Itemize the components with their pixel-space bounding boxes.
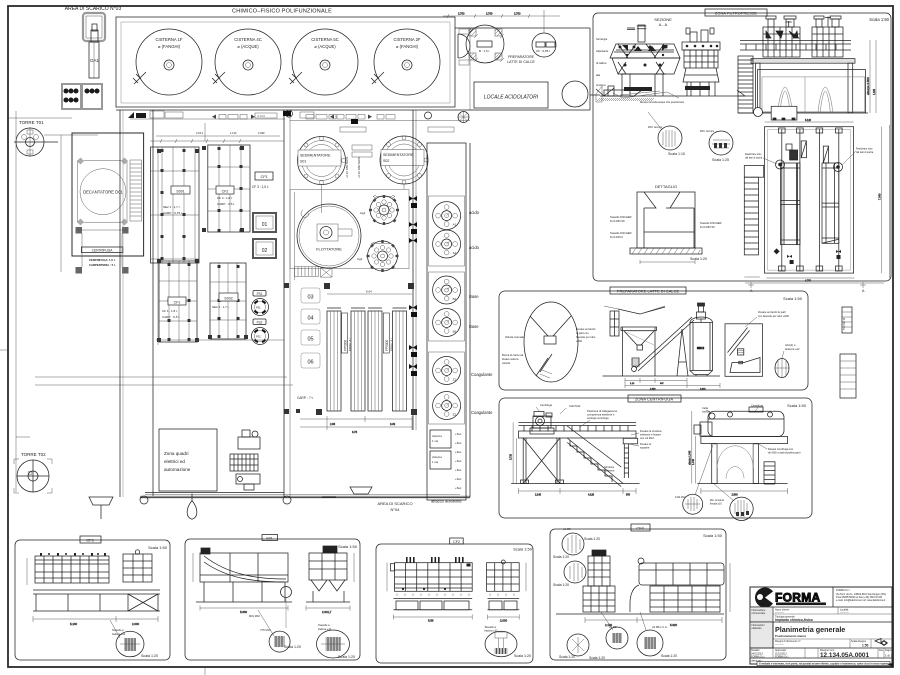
svg-text:fissare sulla la: fissare sulla la [502, 357, 519, 361]
svg-text:Il verbale è riservato, non po: Il verbale è riservato, non potrà, nè pa… [759, 662, 889, 666]
svg-text:Serrangia: Serrangia [596, 37, 608, 41]
svg-text:2.000: 2.000 [500, 619, 507, 623]
svg-text:Centrifuga: Centrifuga [540, 403, 553, 407]
svg-text:VITI M10: VITI M10 [260, 628, 271, 632]
svg-text:Z1: Z1 [453, 378, 457, 382]
svg-text:CARP. : 7 t.: CARP. : 7 t. [297, 396, 314, 400]
svg-text:B2: B2 [453, 330, 457, 334]
svg-text:CF1: CF1 [174, 301, 181, 305]
svg-text:Scala 1:50: Scala 1:50 [338, 544, 358, 549]
svg-text:Scala 1:50: Scala 1:50 [703, 533, 723, 538]
svg-text:FH 12/50 SK: FH 12/50 SK [700, 225, 715, 229]
svg-text:6.04: 6.04 [366, 290, 372, 294]
svg-text:dal lato di uscita: dal lato di uscita [856, 151, 874, 154]
svg-text:tubo(2) a: tubo(2) a [785, 343, 796, 347]
svg-text:CENTRIFUGA: CENTRIFUGA [92, 249, 114, 253]
svg-text:A1: A1 [453, 223, 457, 227]
svg-text:PAV. tecnico: PAV. tecnico [648, 125, 663, 129]
svg-text:fissata ⌀16: fissata ⌀16 [710, 503, 722, 506]
svg-text:Cella: Cella [702, 406, 708, 410]
svg-text:SEDIMENTATORE: SEDIMENTATORE [383, 153, 414, 157]
svg-text:Coagulante: Coagulante [471, 410, 493, 415]
svg-text:Scala 1:10: Scala 1:10 [668, 152, 685, 156]
svg-text:TECNIK W: TECNIK W [843, 317, 846, 330]
svg-text:5.100: 5.100 [70, 622, 77, 626]
svg-text:Centrifuga: Centrifuga [751, 404, 764, 408]
svg-text:DETTAGLIO: DETTAGLIO [655, 184, 677, 189]
svg-text:⊂⊃⊡: ⊂⊃⊡ [257, 114, 265, 118]
svg-text:lanterna ⌀12: lanterna ⌀12 [785, 347, 800, 351]
svg-text:acido: acido [469, 210, 480, 215]
svg-text:Pagina: Pagina [885, 649, 893, 652]
svg-text:le parti con: le parti con [576, 331, 589, 335]
svg-text:CENTRIFUGA: 1,5 t.: CENTRIFUGA: 1,5 t. [89, 258, 116, 262]
svg-text:elaborato: elaborato [752, 627, 763, 630]
svg-text:Struttura: Struttura [604, 465, 615, 469]
svg-text:FS1: FS1 [257, 292, 263, 296]
svg-text:LATTE DI CALCE: LATTE DI CALCE [507, 60, 535, 64]
svg-text:1 mq: 1 mq [432, 460, 439, 464]
svg-text:struttura: struttura [596, 83, 606, 87]
svg-text:LOCALE ACIDOLATORI: LOCALE ACIDOLATORI [484, 95, 539, 101]
svg-text:Scala 1:50: Scala 1:50 [869, 17, 889, 22]
svg-text:commerciale: commerciale [752, 612, 766, 615]
svg-text:2.680: 2.680 [650, 389, 656, 391]
svg-text:di calibre: di calibre [596, 61, 607, 65]
svg-text:P01: P01 [256, 306, 261, 310]
svg-text:2.640: 2.640 [700, 389, 706, 391]
svg-text:cisterna: cisterna [432, 455, 442, 459]
svg-text:2.140: 2.140 [535, 494, 542, 497]
svg-text:1.443: 1.443 [692, 458, 695, 465]
svg-text:CF : 0,65 t: CF : 0,65 t [536, 49, 550, 53]
svg-text:FORMA S.r.l.: FORMA S.r.l. [775, 656, 789, 659]
svg-text:Fissare entrambi: Fissare entrambi [576, 327, 596, 331]
svg-text:Scala 1:20: Scala 1:20 [141, 654, 158, 658]
svg-text:⌀200: ⌀200 [576, 339, 582, 343]
svg-text:squadre: squadre [640, 446, 650, 450]
svg-text:SEDIMENTATORE: SEDIMENTATORE [300, 154, 331, 158]
svg-text:viti M16 e dadi autobloccanti: viti M16 e dadi autobloccanti [768, 451, 801, 455]
svg-text:S001: S001 [176, 190, 184, 194]
svg-text:⌀ (FANGHI): ⌀ (FANGHI) [396, 44, 419, 49]
svg-text:CF 3 : 1,5 t.: CF 3 : 1,5 t. [252, 185, 269, 189]
svg-text:2.000: 2.000 [132, 622, 139, 626]
svg-text:Ag1: Ag1 [360, 211, 366, 215]
svg-text:DECANTATORE D01: DECANTATORE D01 [83, 190, 123, 195]
svg-text:FLOTTATORE: FLOTTATORE [316, 247, 342, 252]
svg-text:M01 M02: M01 M02 [249, 614, 260, 618]
svg-text:TORRE T02: TORRE T02 [21, 452, 46, 457]
svg-text:5.56: 5.56 [428, 619, 434, 623]
svg-text:CARP. : 0,5 t.: CARP. : 0,5 t. [217, 202, 235, 206]
svg-text:Posizionamento utenze: Posizionamento utenze [775, 634, 807, 638]
svg-text:S02: S02 [383, 159, 389, 163]
svg-text:––––––: –––––– [775, 644, 784, 647]
svg-text:Fissare le: Fissare le [640, 442, 652, 446]
svg-text:5.600: 5.600 [240, 610, 247, 614]
svg-text:esistente e fissare: esistente e fissare [640, 433, 661, 437]
svg-text:GA1: GA1 [90, 58, 100, 63]
svg-text:CISTERNA 5C: CISTERNA 5C [311, 37, 338, 42]
svg-text:1 mq: 1 mq [432, 439, 439, 443]
svg-text:Zona quadri: Zona quadri [164, 451, 189, 456]
svg-text:4.700: 4.700 [805, 280, 812, 283]
svg-text:alla: alla [596, 73, 601, 77]
svg-text:2.64.2: 2.64.2 [196, 131, 204, 135]
svg-text:Fissare entrambi le parti: Fissare entrambi le parti [758, 310, 786, 314]
svg-text:Base: Base [469, 324, 479, 329]
svg-text:5.120: 5.120 [805, 119, 812, 122]
svg-text:7.040: 7.040 [878, 193, 882, 200]
svg-text:2.700: 2.700 [458, 12, 465, 16]
svg-text:con viti M12: con viti M12 [640, 436, 654, 440]
svg-text:1:50: 1:50 [862, 644, 869, 648]
svg-text:Tassello FISCHER: Tassello FISCHER [610, 215, 632, 219]
svg-text:CF2: CF2 [453, 540, 460, 544]
svg-text:FP000 : 6 t.: FP000 : 6 t. [348, 337, 352, 351]
svg-text:Ag2: Ag2 [357, 257, 363, 261]
svg-text:Scala 1:20: Scala 1:20 [690, 257, 707, 261]
svg-text:04: 04 [307, 316, 313, 322]
svg-text:Coagulante: Coagulante [471, 372, 493, 377]
svg-text:S01: S01 [266, 537, 272, 541]
svg-text:AREA DI SCARICO N°03: AREA DI SCARICO N°03 [65, 6, 122, 12]
svg-text:3.43: 3.43 [390, 422, 396, 426]
svg-text:B : 1,5 t: B : 1,5 t [479, 49, 490, 53]
svg-text:Scala 1:20: Scala 1:20 [553, 555, 569, 559]
svg-text:SE2 1 : 1,7 t.: SE2 1 : 1,7 t. [163, 205, 181, 209]
svg-text:CISTERNA 1F: CISTERNA 1F [156, 37, 183, 42]
svg-text:altezza 1.340: altezza 1.340 [688, 450, 691, 465]
svg-text:attacco autobotte: attacco autobotte [431, 499, 462, 504]
svg-text:1 di 1: 1 di 1 [885, 654, 893, 658]
svg-text:acido: acido [469, 245, 480, 250]
svg-text:2.099: 2.099 [258, 131, 265, 135]
svg-text:Posiziona di collegamento: Posiziona di collegamento [587, 409, 618, 413]
svg-text:01: 01 [262, 222, 268, 228]
svg-text:e-mail: info@italoforma.it ur: e-mail: info@italoforma.it url: www.ital… [836, 599, 886, 602]
svg-text:Impianto chimico-fisico: Impianto chimico-fisico [775, 618, 813, 622]
svg-text:PAV. tecnico: PAV. tecnico [700, 129, 715, 133]
svg-text:Scala 1:20: Scala 1:20 [559, 655, 575, 659]
svg-text:cisterna: cisterna [432, 434, 442, 438]
svg-text:Planimetria generale: Planimetria generale [775, 625, 845, 634]
svg-text:viti M8 e C.A.: viti M8 e C.A. [652, 625, 668, 629]
svg-text:Scala 1:20: Scala 1:20 [284, 645, 301, 649]
svg-text:Tassello a: Tassello a [318, 623, 330, 627]
svg-text:Messa raccolta acque che posiz: Messa raccolta acque che posizionare [640, 100, 685, 104]
svg-text:CF 2 : 1,8 t.: CF 2 : 1,8 t. [217, 196, 233, 200]
svg-text:CARP. : 0,75 t.: CARP. : 0,75 t. [163, 211, 183, 215]
svg-text:automazione: automazione [164, 467, 191, 472]
svg-text:2.08: 2.08 [330, 422, 336, 426]
svg-text:Scala 1:20: Scala 1:20 [584, 537, 600, 541]
svg-text:Tassello a: Tassello a [112, 628, 124, 632]
svg-text:CISTERNA 2F: CISTERNA 2F [394, 37, 421, 42]
svg-text:+6sc: +6sc [455, 441, 462, 445]
svg-text:CISTERNA 4C: CISTERNA 4C [234, 37, 261, 42]
svg-text:––––––: –––––– [840, 611, 849, 614]
svg-text:+6sc: +6sc [455, 486, 462, 490]
svg-text:+6sc: +6sc [455, 477, 462, 481]
svg-text:05: 05 [307, 337, 313, 343]
svg-text:elettrici ed: elettrici ed [164, 459, 185, 464]
svg-text:CF2: CF2 [222, 190, 229, 194]
svg-text:FP5000: FP5000 [385, 340, 389, 351]
svg-text:P02: P02 [256, 335, 261, 339]
svg-text:FP000 : 6 t.: FP000 : 6 t. [390, 337, 394, 351]
svg-text:ZONA FILTROPRESSE: ZONA FILTROPRESSE [715, 11, 757, 16]
svg-text:B1: B1 [453, 297, 457, 301]
svg-text:+6sc: +6sc [455, 468, 462, 472]
svg-text:⌀ (ACQUE): ⌀ (ACQUE) [314, 44, 336, 49]
svg-text:esistente: esistente [604, 469, 615, 473]
svg-text:4110 M12: 4110 M12 [569, 404, 581, 408]
svg-text:Base: Base [469, 294, 479, 299]
svg-text:600 lt: 600 lt [697, 346, 704, 350]
svg-text:Scala 1:50: Scala 1:50 [787, 403, 807, 408]
svg-text:Scala 1:20: Scala 1:20 [661, 654, 677, 658]
svg-text:S01: S01 [300, 160, 306, 164]
svg-text:Fissare centrifuga con: Fissare centrifuga con [768, 447, 794, 451]
svg-text:fascette per tubo: fascette per tubo [576, 335, 596, 339]
svg-text:altezza 2.500: altezza 2.500 [866, 77, 870, 95]
svg-text:S002: S002 [224, 297, 232, 301]
svg-text:2.540: 2.540 [732, 494, 739, 497]
svg-text:FORMA: FORMA [775, 591, 821, 605]
svg-text:N°04: N°04 [391, 507, 401, 512]
svg-text:03: 03 [307, 295, 313, 301]
svg-text:Tassello a: Tassello a [484, 625, 496, 629]
svg-text:⌀ (FANGHI): ⌀ (FANGHI) [158, 44, 181, 49]
svg-text:Scala 1:50: Scala 1:50 [783, 296, 803, 301]
svg-text:con fascette per tubo ⌀200: con fascette per tubo ⌀200 [758, 314, 789, 318]
svg-text:Z2: Z2 [453, 413, 457, 417]
svg-text:Bocca di carico da: Bocca di carico da [502, 353, 524, 357]
svg-text:Fissare la struttura: Fissare la struttura [640, 429, 662, 433]
svg-text:dal lato di uscita: dal lato di uscita [745, 157, 763, 160]
svg-text:FORMA S.r.l.: FORMA S.r.l. [836, 589, 850, 592]
svg-text:Scala 1:20: Scala 1:20 [338, 655, 355, 659]
svg-text:competenza esistente e: competenza esistente e [587, 413, 615, 417]
svg-text:06: 06 [307, 360, 313, 366]
svg-text:CARPENTERIA : 5 t.: CARPENTERIA : 5 t. [89, 263, 116, 267]
svg-text:+0,10 PAV.TECN.: +0,10 PAV.TECN. [345, 156, 349, 178]
svg-text:Valvola manuale: Valvola manuale [505, 335, 525, 339]
svg-text:2.641,7: 2.641,7 [322, 610, 332, 614]
svg-text:⌀ (ACQUE): ⌀ (ACQUE) [237, 44, 259, 49]
svg-text:scologie centrifuga: scologie centrifuga [587, 416, 609, 420]
svg-text:Scala 1:50: Scala 1:50 [148, 545, 168, 550]
svg-text:2.700: 2.700 [486, 12, 493, 16]
svg-text:CF 1 : 1,8 t.: CF 1 : 1,8 t. [162, 309, 178, 313]
svg-text:4.126: 4.126 [588, 494, 595, 497]
svg-text:Scala 1:50: Scala 1:50 [513, 547, 533, 552]
svg-text:CARP. : 0,5 t.: CARP. : 0,5 t. [162, 315, 180, 319]
svg-text:Tassello FISCHER: Tassello FISCHER [610, 231, 632, 235]
svg-text:CF3: CF3 [86, 538, 94, 543]
svg-text:Scala 1:20: Scala 1:20 [589, 656, 605, 660]
svg-text:CF3: CF3 [261, 175, 268, 179]
svg-text:PREPARATORE: PREPARATORE [508, 55, 535, 59]
svg-text:12.134.05A.0001: 12.134.05A.0001 [820, 652, 869, 659]
svg-text:+6sc: +6sc [455, 432, 462, 436]
svg-text:2.700: 2.700 [514, 12, 521, 16]
svg-text:FH 12/50 SK: FH 12/50 SK [610, 219, 625, 223]
svg-text:6.78: 6.78 [352, 430, 358, 434]
svg-text:1.100: 1.100 [873, 88, 876, 95]
svg-text:FS2: FS2 [257, 321, 263, 325]
svg-text:Scala 1:25: Scala 1:25 [712, 158, 729, 162]
svg-text:battura ⌀12: battura ⌀12 [318, 627, 332, 631]
svg-text:Tassello FISCHER: Tassello FISCHER [700, 221, 722, 225]
svg-text:Scala 1:20: Scala 1:20 [553, 583, 569, 587]
svg-text:TORRE T01: TORRE T01 [19, 120, 44, 125]
svg-text:5.620: 5.620 [670, 623, 677, 627]
svg-text:ZONA CENTRIFUGA: ZONA CENTRIFUGA [635, 397, 673, 402]
svg-text:FORMA S.r.l.: FORMA S.r.l. [751, 656, 765, 659]
svg-text:PREPARATORE LATTE DI CALCE: PREPARATORE LATTE DI CALCE [617, 289, 680, 294]
svg-text:Scala 1:20: Scala 1:20 [514, 654, 531, 658]
svg-text:A2: A2 [453, 251, 457, 255]
svg-text:1.134: 1.134 [230, 131, 237, 135]
svg-text:valvola: valvola [502, 361, 511, 365]
svg-text:––––––: –––––– [775, 611, 784, 614]
svg-text:battura ⌀12: battura ⌀12 [112, 632, 126, 636]
svg-text:AREA DI SCARICO: AREA DI SCARICO [377, 501, 412, 506]
svg-text:viti M8: viti M8 [563, 527, 571, 531]
svg-text:Rev.: Rev. [879, 649, 884, 652]
svg-text:4110 M12: 4110 M12 [675, 496, 686, 499]
svg-text:02: 02 [262, 248, 268, 254]
svg-text:970: 970 [626, 494, 631, 497]
svg-text:battura ⌀12: battura ⌀12 [484, 629, 498, 633]
svg-text:+0,10 PAV.TECN.: +0,10 PAV.TECN. [357, 156, 361, 178]
svg-text:3.710: 3.710 [510, 453, 513, 460]
svg-text:SE2 2 : 1,7 t.: SE2 2 : 1,7 t. [212, 305, 230, 309]
svg-text:+6sc: +6sc [455, 450, 462, 454]
svg-text:FH 12/25 K: FH 12/25 K [610, 235, 623, 239]
svg-text:Adjustante: Adjustante [596, 49, 609, 53]
svg-text:+6sc: +6sc [455, 459, 462, 463]
svg-text:A - A: A - A [659, 22, 668, 27]
svg-text:FP5000: FP5000 [343, 340, 347, 351]
svg-text:CHIMICO–FISICO POLIFUNZIONALE: CHIMICO–FISICO POLIFUNZIONALE [232, 9, 332, 15]
svg-text:CF3: CF3 [636, 526, 644, 531]
